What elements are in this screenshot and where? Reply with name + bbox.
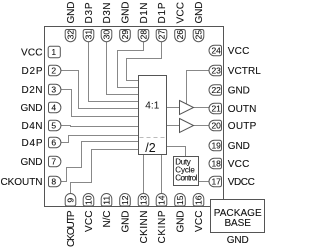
svg-text:VCC: VCC bbox=[228, 46, 250, 57]
svg-text:6: 6 bbox=[51, 137, 56, 147]
svg-text:24: 24 bbox=[211, 45, 221, 55]
svg-text:12: 12 bbox=[120, 195, 130, 205]
svg-text:32: 32 bbox=[65, 30, 75, 40]
svg-text:D4P: D4P bbox=[22, 138, 43, 149]
svg-text:23: 23 bbox=[211, 65, 221, 75]
svg-text:VCC: VCC bbox=[21, 48, 43, 59]
svg-text:5: 5 bbox=[51, 120, 56, 130]
svg-text:VDCC: VDCC bbox=[228, 177, 255, 188]
svg-text:GND: GND bbox=[194, 2, 205, 24]
svg-text:VCC: VCC bbox=[84, 211, 95, 233]
svg-text:17: 17 bbox=[211, 176, 221, 186]
svg-text:22: 22 bbox=[211, 85, 221, 95]
svg-text:8: 8 bbox=[51, 176, 56, 186]
svg-text:GND: GND bbox=[66, 2, 77, 24]
svg-text:GND: GND bbox=[227, 235, 249, 246]
svg-text:GND: GND bbox=[176, 211, 187, 233]
svg-text:19: 19 bbox=[211, 140, 221, 150]
svg-text:2: 2 bbox=[51, 65, 56, 75]
svg-text:GND: GND bbox=[121, 211, 132, 233]
svg-text:14: 14 bbox=[156, 195, 166, 205]
svg-text:OUTP: OUTP bbox=[228, 121, 257, 132]
svg-text:27: 27 bbox=[156, 30, 166, 40]
svg-text:18: 18 bbox=[211, 158, 221, 168]
svg-text:Control: Control bbox=[175, 173, 197, 182]
svg-text:GND: GND bbox=[21, 157, 43, 168]
svg-text:CKOUTN: CKOUTN bbox=[1, 177, 43, 188]
svg-text:CKINN: CKINN bbox=[139, 211, 150, 244]
svg-text:26: 26 bbox=[175, 30, 185, 40]
svg-text:D4N: D4N bbox=[22, 121, 43, 132]
svg-text:D1N: D1N bbox=[139, 3, 150, 24]
svg-text:CKINP: CKINP bbox=[157, 210, 168, 243]
svg-text:16: 16 bbox=[193, 195, 203, 205]
svg-text:GND: GND bbox=[228, 86, 250, 97]
svg-text:D3P: D3P bbox=[84, 2, 95, 23]
svg-text:VCC: VCC bbox=[194, 211, 205, 233]
svg-text:D3N: D3N bbox=[102, 2, 113, 23]
svg-text:VCC: VCC bbox=[228, 159, 250, 170]
svg-text:D1P: D1P bbox=[157, 2, 168, 23]
svg-text:25: 25 bbox=[193, 30, 203, 40]
svg-text:VCC: VCC bbox=[176, 2, 187, 24]
svg-text:28: 28 bbox=[138, 30, 148, 40]
svg-text:D2P: D2P bbox=[22, 66, 43, 77]
svg-text:10: 10 bbox=[83, 195, 93, 205]
svg-text:4: 4 bbox=[51, 102, 56, 112]
svg-text:CKOUTP: CKOUTP bbox=[66, 210, 77, 247]
svg-text:21: 21 bbox=[211, 103, 221, 113]
svg-text:3: 3 bbox=[51, 84, 56, 94]
svg-text:7: 7 bbox=[51, 156, 56, 166]
svg-text:VCTRL: VCTRL bbox=[228, 66, 261, 77]
svg-text:11: 11 bbox=[101, 196, 111, 205]
svg-text:20: 20 bbox=[211, 120, 221, 130]
svg-text:30: 30 bbox=[101, 30, 111, 40]
svg-text:GND: GND bbox=[121, 2, 132, 24]
svg-text:GND: GND bbox=[21, 103, 43, 114]
svg-text:GND: GND bbox=[228, 141, 250, 152]
svg-text:OUTN: OUTN bbox=[228, 104, 256, 115]
svg-text:BASE: BASE bbox=[224, 218, 251, 229]
svg-text:29: 29 bbox=[120, 30, 130, 40]
svg-text:4:1: 4:1 bbox=[145, 101, 159, 112]
svg-text:N/C: N/C bbox=[102, 211, 113, 228]
svg-text:D2N: D2N bbox=[22, 85, 43, 96]
svg-text:15: 15 bbox=[175, 195, 185, 205]
svg-text:/2: /2 bbox=[145, 141, 155, 155]
svg-text:31: 31 bbox=[83, 30, 93, 40]
svg-text:9: 9 bbox=[65, 198, 75, 203]
svg-text:13: 13 bbox=[138, 195, 148, 205]
svg-text:1: 1 bbox=[51, 47, 56, 57]
